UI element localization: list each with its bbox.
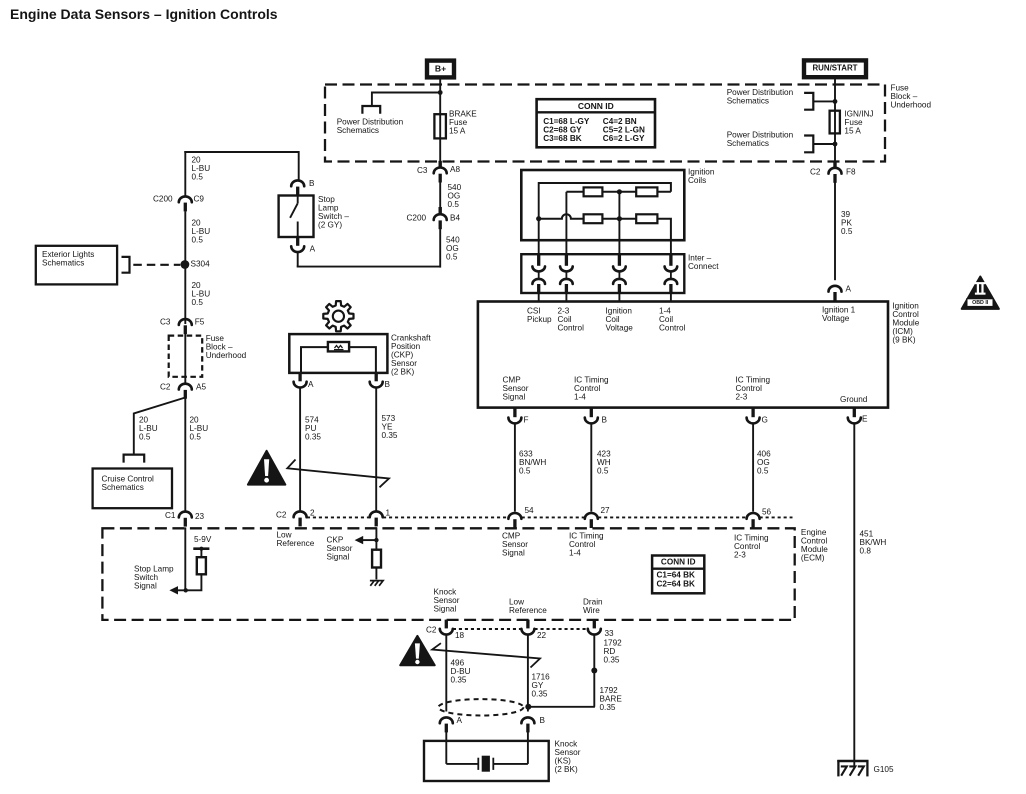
label Power Distribution Schematics 1 [727, 88, 794, 106]
interconnect pair voltage [613, 254, 626, 293]
wire B into KS box [527, 732, 529, 764]
svg-text:A: A [457, 716, 463, 725]
OBD II triangle [962, 277, 999, 309]
svg-text:Control: Control [659, 324, 686, 333]
svg-text:0.5: 0.5 [446, 253, 458, 262]
svg-text:C2: C2 [426, 626, 437, 635]
label Ignition Coil Voltage [606, 307, 634, 333]
off-page bracket power distribution 2 [804, 136, 813, 153]
svg-text:C1: C1 [165, 511, 176, 520]
label CKP Sensor Signal [327, 536, 353, 562]
label Low Reference (CKP) [277, 531, 315, 549]
connector C3 A8 [434, 161, 447, 183]
wire to switch B [298, 151, 300, 181]
label 23 [195, 512, 205, 521]
junction dot at B+ wire [438, 90, 443, 95]
svg-text:0.35: 0.35 [604, 656, 620, 665]
wire label 20 L-BU 0.5 (2) [192, 219, 211, 245]
dotted harness line top 4 [598, 516, 746, 518]
label B (ICM) [602, 416, 608, 425]
label Ground [840, 395, 868, 404]
svg-text:F: F [524, 416, 529, 425]
svg-text:(2 BK): (2 BK) [391, 368, 414, 377]
connector pin22 [521, 620, 534, 635]
connector pin33 [588, 620, 601, 635]
connector A CKP [294, 373, 307, 388]
wire 39 PK 0.5 [834, 182, 836, 280]
junction dot lower bracket [833, 142, 838, 147]
svg-text:0.35: 0.35 [532, 690, 548, 699]
label Knock Sensor Signal (ECM) [434, 588, 460, 614]
svg-text:C200: C200 [153, 195, 173, 204]
svg-text:Signal: Signal [502, 549, 525, 558]
svg-text:0.35: 0.35 [382, 431, 398, 440]
wire label 20 L-BU 0.5 (main) [190, 416, 209, 442]
wire C9 to S304 [184, 211, 186, 324]
switch contact upper [297, 196, 299, 203]
connector A stop lamp switch [291, 237, 304, 252]
svg-text:Schematics: Schematics [102, 483, 144, 492]
wire 1792 RD 0.35 [593, 635, 595, 707]
engine control module dashed box [102, 528, 794, 620]
fuse block underhood dashed box [325, 85, 885, 162]
junction dot row B col3 [617, 216, 622, 221]
KS piezo element [478, 756, 493, 772]
svg-text:Voltage: Voltage [822, 314, 850, 323]
svg-text:Control: Control [558, 324, 585, 333]
wire A into KS box [445, 732, 447, 764]
warning triangle KS [400, 636, 435, 665]
label B (CKP) [385, 380, 391, 389]
svg-text:0.5: 0.5 [597, 467, 609, 476]
wire resistor to junction [172, 574, 201, 590]
wire interconnect to ICM 2 [565, 293, 567, 302]
svg-text:Underhood: Underhood [206, 351, 247, 360]
inter-connect box [521, 254, 684, 293]
svg-text:B+: B+ [435, 64, 446, 74]
svg-text:RUN/START: RUN/START [812, 64, 857, 73]
label A (CKP) [308, 380, 314, 389]
coil col1 wire CSI [538, 182, 540, 255]
label CMP Sensor Signal (ICM) [503, 376, 529, 402]
coil col2 wire 2-3 control [565, 192, 567, 255]
wire B4 down to switch A [439, 229, 441, 268]
ignition control module box [478, 302, 888, 408]
connector B ICM [585, 408, 598, 423]
svg-text:CONN ID: CONN ID [578, 101, 614, 111]
svg-text:C3=68 BK: C3=68 BK [543, 134, 582, 143]
svg-text:Signal: Signal [327, 553, 350, 562]
connector F ICM [508, 408, 521, 423]
svg-text:Engine Data Sensors – Ignition: Engine Data Sensors – Ignition Controls [10, 6, 278, 22]
switch contact lower [297, 222, 299, 238]
svg-text:S304: S304 [191, 259, 211, 268]
label BRAKE Fuse 15 A [449, 110, 477, 136]
CONN ID table (bottom) [652, 556, 704, 594]
label E [862, 415, 868, 424]
label IGN/INJ Fuse 15 A [844, 110, 873, 136]
twisted pair marker CKP [287, 460, 389, 488]
wire 423 WH 0.5 [590, 423, 592, 511]
wire switch A to 540 wire [297, 252, 441, 267]
wire drain to low reference [528, 706, 595, 708]
arrow CKP sensor signal [355, 536, 364, 544]
svg-text:B: B [309, 179, 315, 188]
CKP reluctor gear icon [323, 301, 353, 331]
coil row B wire with hop [539, 214, 671, 240]
knock sensor box [424, 741, 549, 781]
label C2 (pin18) [426, 626, 437, 635]
wire 451 BK/WH 0.8 [853, 423, 855, 766]
svg-text:Signal: Signal [434, 605, 457, 614]
wire label 573 YE 0.35 [382, 414, 398, 440]
label 5-9V [194, 535, 212, 544]
label A (ignition1) [846, 285, 852, 294]
wire F5 to A5 [184, 334, 186, 384]
svg-text:C2=64 BK: C2=64 BK [657, 580, 696, 589]
svg-text:0.5: 0.5 [190, 433, 202, 442]
svg-text:Schematics: Schematics [727, 139, 769, 148]
label Ignition Coils [688, 168, 715, 186]
interconnect pair CSI [532, 254, 545, 293]
label F [524, 416, 529, 425]
svg-text:C1=64 BK: C1=64 BK [657, 570, 696, 579]
dotted harness line top 1 [307, 516, 370, 518]
label Ignition 1 Voltage [822, 306, 856, 324]
label CMP Sensor Signal (ECM) [502, 532, 528, 558]
svg-text:0.35: 0.35 [451, 676, 467, 685]
svg-text:A8: A8 [450, 165, 460, 174]
svg-text:C3: C3 [417, 166, 428, 175]
connector B stop lamp switch [291, 180, 304, 196]
wire top horizontal to stop lamp switch [184, 151, 298, 197]
svg-text:0.35: 0.35 [600, 703, 616, 712]
wire label 20 L-BU 0.5 (1) [192, 156, 211, 182]
svg-text:56: 56 [762, 507, 772, 516]
CKP pickup element [328, 342, 349, 351]
svg-text:15 A: 15 A [844, 127, 861, 136]
svg-text:A5: A5 [196, 383, 206, 392]
label CSI Pickup [527, 307, 552, 325]
label G105 [874, 765, 894, 774]
label Ignition Control Module ICM 9 BK [892, 302, 919, 345]
wire 496 D-BU 0.35 [445, 635, 447, 712]
coil col3 wire voltage [618, 192, 620, 255]
stop lamp switch box [279, 196, 314, 238]
label G [762, 416, 768, 425]
wire interconnect to ICM 4 [670, 293, 672, 302]
label B4 [450, 214, 460, 223]
warning triangle CKP [248, 451, 285, 485]
coil primary A1 [584, 187, 603, 196]
resistor CKP [372, 550, 381, 568]
svg-text:5-9V: 5-9V [194, 535, 212, 544]
svg-text:B: B [385, 380, 391, 389]
label pin 1 [386, 509, 391, 518]
junction dot CKP signal [374, 538, 378, 542]
off-page bracket cruise control [124, 455, 145, 463]
svg-text:1-4: 1-4 [569, 549, 581, 558]
svg-text:A: A [308, 380, 314, 389]
connector E ICM [848, 408, 861, 423]
label Knock Sensor KS 2 BK [555, 740, 581, 775]
wire label 20 L-BU 0.5 (3) [192, 281, 211, 307]
label 18 [455, 631, 465, 640]
svg-text:2: 2 [310, 509, 315, 518]
interconnect pair 2-3 [560, 254, 573, 293]
shield ellipse [438, 699, 523, 715]
fuse BRAKE 15A [434, 114, 446, 138]
connector pin 27 [585, 513, 598, 528]
wire label 1792 RD 0.35 [604, 639, 623, 665]
svg-text:54: 54 [525, 506, 535, 515]
connector C2 F8 [829, 161, 842, 183]
label 54 [525, 506, 535, 515]
connector pin 56 [747, 513, 760, 528]
CONN ID table (top) [537, 99, 655, 147]
label C3 (F5) [160, 318, 171, 327]
chassis ground CKP [370, 581, 383, 586]
svg-text:22: 22 [537, 631, 547, 640]
junction dot stop lamp signal [184, 588, 188, 592]
coils top feed wire [539, 183, 671, 192]
svg-text:B4: B4 [450, 214, 460, 223]
svg-text:C6=2 L-GY: C6=2 L-GY [603, 134, 645, 143]
svg-text:Coils: Coils [688, 176, 706, 185]
label C3 (A8) [417, 166, 428, 175]
exterior lights schematics box [36, 246, 117, 285]
label C200 (B4) [407, 214, 427, 223]
label C2 (A5) [160, 383, 171, 392]
label 22 [537, 631, 547, 640]
title text [10, 6, 278, 22]
svg-text:CONN ID: CONN ID [661, 558, 696, 567]
svg-text:15 A: 15 A [449, 127, 466, 136]
label pin 2 [310, 509, 315, 518]
connector B CKP [370, 373, 383, 388]
battery B+ box [427, 61, 454, 78]
label C9 [194, 195, 205, 204]
wire through BRAKE fuse [439, 114, 441, 138]
svg-text:Ground: Ground [840, 395, 868, 404]
off-page bracket power distribution [362, 106, 380, 114]
svg-text:27: 27 [601, 506, 611, 515]
fuse IGN/INJ 15A [830, 111, 840, 134]
wire A5 down to C1 23 [184, 398, 186, 512]
wire label 1716 GY 0.35 [532, 673, 551, 699]
svg-text:F8: F8 [846, 168, 856, 177]
svg-text:2-3: 2-3 [734, 551, 746, 560]
svg-text:Underhood: Underhood [891, 101, 932, 110]
label Engine Control Module ECM [801, 528, 828, 563]
ground G105 symbol [837, 760, 868, 776]
CKP inner wires [301, 347, 376, 373]
connector A KS [440, 717, 453, 732]
junction dot upper bracket [833, 99, 838, 104]
label 2-3 Coil Control [558, 307, 585, 333]
label Power Distribution Schematics 2 [727, 131, 794, 149]
cruise control schematics box [93, 469, 172, 509]
wire label 540 OG 0.5 (1) [448, 183, 462, 209]
resistor stop lamp pull-up [197, 557, 206, 574]
wire label 540 OG 0.5 (2) [446, 236, 460, 262]
svg-text:C9: C9 [194, 195, 205, 204]
svg-text:Pickup: Pickup [527, 315, 552, 324]
svg-text:Reference: Reference [277, 539, 315, 548]
wire 406 OG 0.5 [752, 423, 754, 511]
dotted harness line top 3 [522, 516, 585, 518]
wire pin23 into ECM [184, 527, 186, 590]
svg-text:0.5: 0.5 [757, 467, 769, 476]
wire to power distribution bracket [372, 92, 440, 107]
svg-text:0.5: 0.5 [448, 200, 460, 209]
svg-text:Schematics: Schematics [337, 126, 379, 135]
junction dot row A col3 [617, 189, 622, 194]
svg-text:33: 33 [605, 629, 615, 638]
coil col4 wire 1-4 control [670, 239, 672, 255]
label F5 [195, 318, 205, 327]
coil primary A2 [636, 187, 657, 196]
dotted harness line top 5 [760, 516, 793, 518]
label Drain Wire [583, 598, 603, 616]
connector C2 pin18 [440, 620, 453, 635]
label S304 [191, 259, 211, 268]
svg-text:Schematics: Schematics [727, 97, 769, 106]
KS element wires [446, 763, 528, 765]
wire to CKP arrow [362, 539, 376, 541]
wire 1716 GY 0.35 [527, 635, 529, 712]
svg-text:(2 BK): (2 BK) [555, 765, 578, 774]
label F8 [846, 168, 856, 177]
off-page bracket power distribution 1 [804, 93, 813, 110]
connector B KS [521, 717, 534, 732]
connector G ICM [747, 408, 760, 423]
connector C1 23 [179, 512, 192, 527]
interconnect pair 1-4 [665, 254, 678, 293]
svg-text:Wire: Wire [583, 606, 600, 615]
label B (KS) [540, 716, 546, 725]
svg-text:0.35: 0.35 [305, 433, 321, 442]
svg-text:B: B [602, 416, 608, 425]
svg-text:0.5: 0.5 [139, 433, 151, 442]
label C2 (F8) [810, 168, 821, 177]
wire label 496 D-BU 0.35 [451, 659, 471, 685]
label A5 [196, 383, 206, 392]
svg-text:B: B [540, 716, 546, 725]
wire B+ down to fuse [439, 79, 441, 168]
coil primary B1 [584, 214, 603, 223]
svg-text:Signal: Signal [503, 393, 526, 402]
svg-text:E: E [862, 415, 868, 424]
label C200 [153, 195, 173, 204]
svg-text:0.5: 0.5 [192, 236, 204, 245]
wire interconnect to ICM 1 [538, 293, 540, 302]
svg-text:G: G [762, 416, 768, 425]
svg-text:C2: C2 [276, 510, 287, 519]
svg-text:C3: C3 [160, 318, 171, 327]
label IC Timing Control 1-4 (ICM) [574, 376, 609, 402]
svg-text:0.5: 0.5 [519, 467, 531, 476]
dashed link to S304 [133, 264, 180, 266]
label 27 [601, 506, 611, 515]
svg-text:(ECM): (ECM) [801, 554, 825, 563]
connector C2 pin2 [294, 511, 307, 526]
svg-text:23: 23 [195, 512, 205, 521]
svg-text:C2: C2 [810, 168, 821, 177]
wire label 20 L-BU 0.5 (branch) [139, 416, 158, 442]
label 1-4 Coil Control [659, 307, 686, 333]
dotted harness line bottom 2 [535, 628, 588, 630]
wire label 423 WH 0.5 [597, 450, 611, 476]
wire 573 YE 0.35 [375, 387, 377, 511]
wire A8 to B4 [439, 182, 441, 208]
label Inter Connect [688, 254, 719, 272]
wire label 406 OG 0.5 [757, 450, 771, 476]
svg-text:OBD II: OBD II [972, 300, 989, 306]
connector C2 A5 [179, 384, 192, 399]
wire to bracket 2 [813, 143, 835, 145]
label Power Distribution Schematics (left) [337, 118, 404, 136]
svg-text:F5: F5 [195, 318, 205, 327]
label C2 (pin2) [276, 510, 287, 519]
svg-text:2-3: 2-3 [736, 393, 748, 402]
junction dot drain to low ref [525, 704, 531, 710]
label IC Timing Control 2-3 (ICM) [736, 376, 771, 402]
label Fuse Block Underhood (right) [891, 84, 932, 110]
svg-text:Schematics: Schematics [42, 258, 84, 267]
wire label 1792 BARE 0.35 [600, 686, 623, 712]
wire 574 PU 0.35 [299, 387, 301, 511]
RUN/START box [804, 60, 866, 77]
svg-text:1-4: 1-4 [574, 393, 586, 402]
wire to bracket 1 [813, 100, 835, 102]
wire RUN/START down [834, 79, 836, 168]
coil primary B2 [636, 214, 657, 223]
label 56 [762, 507, 772, 516]
arrow stop lamp switch signal [169, 586, 178, 594]
svg-text:0.5: 0.5 [192, 298, 204, 307]
label Stop Lamp Switch (2 GY) [318, 195, 349, 230]
svg-text:(2 GY): (2 GY) [318, 221, 342, 230]
label Stop Lamp Switch Signal [134, 565, 174, 591]
label C1 [165, 511, 176, 520]
wire label 451 BK/WH 0.8 [860, 530, 887, 556]
connector A ignition 1 [829, 286, 842, 301]
label A (KS) [457, 716, 463, 725]
label A (switch) [310, 244, 316, 253]
wire label 39 PK 0.5 [841, 210, 853, 236]
off-page bracket exterior lights [122, 257, 130, 273]
svg-text:1: 1 [386, 509, 391, 518]
svg-text:0.5: 0.5 [841, 227, 853, 236]
connector pin 54 [508, 513, 521, 528]
svg-text:(9 BK): (9 BK) [892, 336, 915, 345]
label IC Timing Control 2-3 (ECM) [734, 534, 769, 560]
label Crankshaft Position CKP Sensor 2 BK [391, 334, 431, 377]
svg-text:A: A [310, 244, 316, 253]
connector pin1 [370, 511, 383, 526]
switch blade [290, 203, 298, 218]
wire branch diagonal to cruise [134, 398, 186, 456]
junction dot drain wire [591, 668, 597, 674]
svg-text:18: 18 [455, 631, 465, 640]
svg-text:G105: G105 [874, 765, 894, 774]
label 33 [605, 629, 615, 638]
connector C200 B4 [434, 207, 447, 229]
wire label 574 PU 0.35 [305, 416, 321, 442]
twisted pair marker KS [432, 643, 540, 667]
svg-text:0.8: 0.8 [860, 547, 872, 556]
